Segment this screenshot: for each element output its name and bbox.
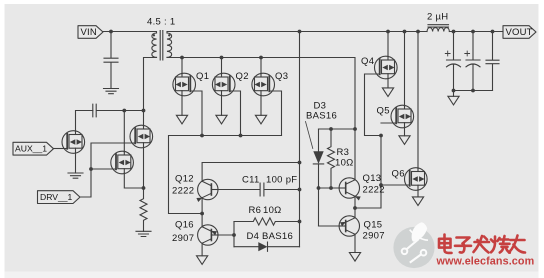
wire Q15 base xyxy=(319,225,346,227)
capacitor input xyxy=(104,32,118,89)
wire Q5 drain xyxy=(404,32,406,106)
wire Q5 gate xyxy=(381,122,396,124)
transistor Q6 xyxy=(405,168,428,191)
capacitor Cout2 xyxy=(465,32,480,91)
svg-text:2907: 2907 xyxy=(363,231,385,242)
svg-text:2222: 2222 xyxy=(172,186,194,197)
node Q16 base xyxy=(232,233,236,237)
node C2 top xyxy=(471,30,475,34)
svg-text:BAS16: BAS16 xyxy=(262,231,293,242)
node Mdrv drain tap xyxy=(122,109,126,113)
wire Q12-Q16 emitters xyxy=(201,198,203,227)
svg-text:www.elecfans.com: www.elecfans.com xyxy=(436,256,535,268)
wire Mdrv gate xyxy=(91,168,116,170)
svg-text:R3: R3 xyxy=(337,147,350,158)
wire D3 R3 top xyxy=(319,128,356,130)
node Q2 drain xyxy=(220,56,224,60)
diode D3 xyxy=(313,129,323,226)
wire Q6 drain xyxy=(417,32,419,169)
svg-text:AUX__1: AUX__1 xyxy=(15,144,47,154)
transistor Q5 xyxy=(391,105,414,128)
wire secondary rail xyxy=(167,57,355,179)
diode D4 xyxy=(234,242,300,251)
leader D3 xyxy=(306,122,313,149)
watermark chinese text xyxy=(439,235,525,253)
svg-text:C11: C11 xyxy=(242,175,260,186)
transistor Q16 xyxy=(198,225,219,245)
node Q1 drain xyxy=(180,56,184,60)
wire inductor to VOUT xyxy=(449,31,503,33)
wire M2 drain xyxy=(143,111,145,126)
svg-text:R6: R6 xyxy=(249,205,262,216)
node fb top xyxy=(298,30,302,34)
resistor sense xyxy=(140,188,147,231)
node Q3 drain xyxy=(259,56,263,60)
node Mdrv gate xyxy=(89,167,93,171)
wire Q2 drain xyxy=(221,58,223,74)
node AUX tag xyxy=(13,142,54,155)
wire Mdrv source xyxy=(124,173,143,188)
node DRV tag xyxy=(38,191,81,204)
watermark logo xyxy=(393,222,434,268)
wire VIN to transformer xyxy=(103,32,157,34)
svg-text:10Ω: 10Ω xyxy=(263,205,282,216)
node Q6 gate xyxy=(379,183,383,187)
wire Q3 drain xyxy=(260,58,262,74)
wire top rail xyxy=(167,32,427,34)
svg-text:Q2: Q2 xyxy=(236,71,249,82)
ground arrow Q15 xyxy=(349,253,360,262)
wire Q3 gate xyxy=(269,91,281,136)
wire Q4 source xyxy=(387,78,389,88)
wire Q16 collector xyxy=(201,243,203,256)
svg-text:10Ω: 10Ω xyxy=(335,158,354,169)
wire Q2 gate xyxy=(230,91,241,136)
node D3 Q13 base xyxy=(317,186,321,190)
ground arrow Q4 xyxy=(382,88,393,97)
node fb Q12c xyxy=(298,161,302,165)
node driver output xyxy=(200,212,204,216)
wire primary bottom xyxy=(144,57,157,110)
node caps gnd2 xyxy=(471,89,475,93)
wire Q1 gate xyxy=(190,91,202,136)
ground input cap xyxy=(104,89,119,94)
wire caps bottom xyxy=(454,90,493,92)
junction input cap xyxy=(109,30,113,34)
ground arrow Q3 xyxy=(255,115,266,124)
wire Q5 source xyxy=(404,127,406,136)
node C1 top xyxy=(452,30,456,34)
transistor M aux xyxy=(62,131,85,154)
node Q5 drain xyxy=(403,30,407,34)
node emitters Q13 xyxy=(353,206,357,210)
wire output ground xyxy=(453,91,455,97)
svg-text:VIN: VIN xyxy=(81,27,97,38)
inductor L1 xyxy=(427,25,449,32)
transistor Q12 xyxy=(196,179,218,202)
wire Q4 drain xyxy=(387,32,389,57)
wire Q6 source xyxy=(417,190,419,197)
svg-text:4.5 : 1: 4.5 : 1 xyxy=(147,17,176,28)
wire M2 source xyxy=(143,147,145,188)
wire Q4 gate xyxy=(365,74,382,136)
node VIN tag xyxy=(78,26,103,39)
node VOUT tag xyxy=(503,26,536,39)
ground Maux xyxy=(68,173,83,178)
svg-text:Q12: Q12 xyxy=(175,174,194,185)
transistor M2 xyxy=(130,125,153,148)
ground arrow Q6 xyxy=(412,197,423,206)
wire feedback rail xyxy=(299,32,301,247)
capacitor C11 xyxy=(211,183,299,196)
node fb C11 xyxy=(298,188,302,192)
node M2 drain tap xyxy=(142,109,146,113)
node source junction xyxy=(142,186,146,190)
node Q13 collector rail xyxy=(353,127,357,131)
capacitor Cout1 xyxy=(445,32,460,91)
wire Q3 source xyxy=(260,95,262,115)
ground arrow output xyxy=(448,96,459,105)
node Q4 drain xyxy=(386,30,390,34)
svg-text:Q15: Q15 xyxy=(364,220,383,231)
wire DRV riser xyxy=(80,143,135,197)
svg-text:100 pF: 100 pF xyxy=(266,175,297,186)
node Q1 gate bus xyxy=(200,134,204,138)
capacitor aux xyxy=(93,104,144,117)
transistor Q15 xyxy=(339,216,360,236)
wire Q12 collector xyxy=(202,163,299,182)
svg-text:VOUT: VOUT xyxy=(506,27,533,38)
wire Q2 source xyxy=(221,95,223,115)
node Q4 Q5 gates xyxy=(379,134,383,138)
ground sense resistor xyxy=(136,231,151,236)
wire Q13-Q15 emitters xyxy=(354,196,356,218)
wire AUX to gate xyxy=(54,148,68,150)
svg-text:Q3: Q3 xyxy=(275,71,288,82)
transistor M drv xyxy=(111,151,134,174)
wire Q13 base xyxy=(319,187,346,189)
wire emitters to gate rail xyxy=(355,136,381,209)
transistor Q3 xyxy=(252,73,275,96)
ground arrow Q5 xyxy=(399,136,410,145)
svg-text:Q5: Q5 xyxy=(377,106,390,117)
transistor Q2 xyxy=(212,73,235,96)
wire Q6 gate xyxy=(381,184,410,186)
transistor Q13 xyxy=(339,178,361,201)
svg-text:Q4: Q4 xyxy=(361,56,374,67)
svg-text:2907: 2907 xyxy=(172,233,194,244)
svg-text:Q1: Q1 xyxy=(196,71,209,82)
svg-text:Q13: Q13 xyxy=(363,173,382,184)
capacitor Cout3 xyxy=(486,32,499,91)
wire Q15 collector xyxy=(354,234,356,252)
wire Q1 source xyxy=(181,95,183,115)
ground arrow Q1 xyxy=(176,115,187,124)
resistor R6 xyxy=(234,218,300,225)
transistor Q4 xyxy=(375,56,398,79)
svg-text:DRV__1: DRV__1 xyxy=(40,192,73,202)
node Q2 gate bus xyxy=(239,134,243,138)
svg-text:2222: 2222 xyxy=(363,185,385,196)
svg-text:BAS16: BAS16 xyxy=(306,111,337,122)
wire Maux source xyxy=(75,153,77,173)
node R3 Q13 base xyxy=(329,186,333,190)
node C3 top xyxy=(491,30,495,34)
node fb R6 xyxy=(298,220,302,224)
resistor R3 xyxy=(328,129,335,188)
wire Q1 drain xyxy=(181,58,183,74)
ground arrow Q2 xyxy=(216,115,227,124)
transistor Q1 xyxy=(173,73,196,96)
node R3 top xyxy=(329,127,333,131)
wire Maux drain xyxy=(76,111,93,132)
wire gate bus xyxy=(169,136,282,214)
node caps gnd1 xyxy=(452,89,456,93)
ground arrow Q16 xyxy=(197,256,208,265)
svg-text:Q16: Q16 xyxy=(175,220,194,231)
svg-text:D4: D4 xyxy=(247,231,260,242)
node Q6 drain xyxy=(416,30,420,34)
wire Mdrv drain xyxy=(123,111,125,152)
svg-text:2 µH: 2 µH xyxy=(427,12,448,23)
transformer T1 xyxy=(152,31,172,61)
wire Q16 base xyxy=(211,222,234,247)
svg-text:Q6: Q6 xyxy=(392,169,405,180)
